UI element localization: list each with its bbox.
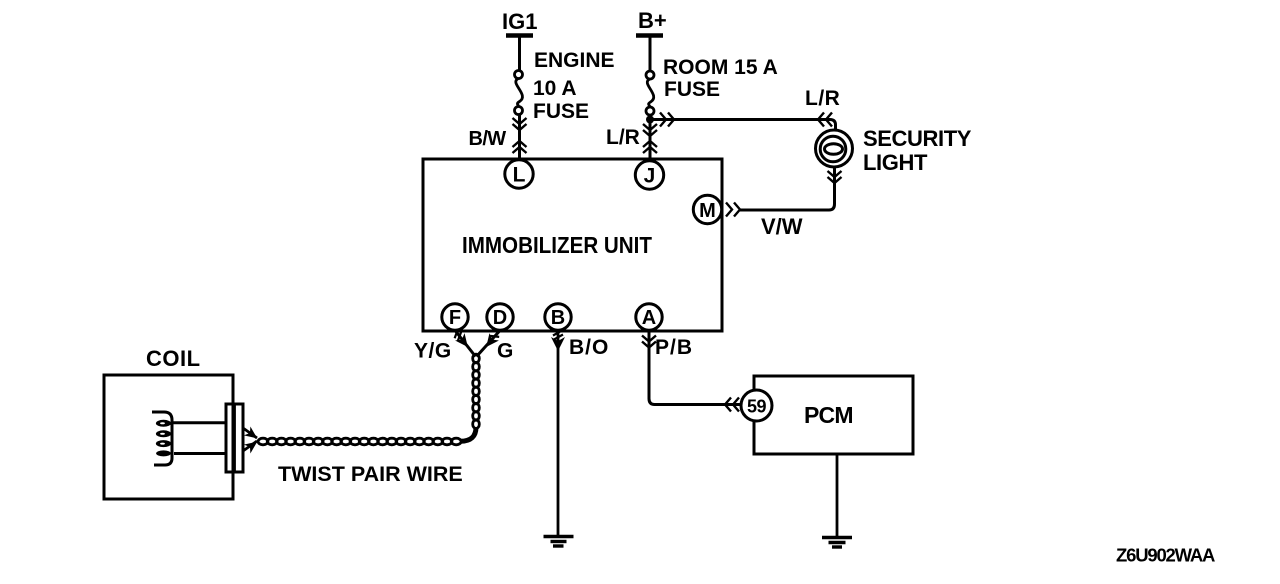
fuse ROOM 15A (symbol) [646,71,654,115]
wire junction to pin J [649,115,652,159]
svg-text:B/W: B/W [469,128,507,150]
svg-text:Z6U902WAA: Z6U902WAA [1116,545,1215,566]
pin B [545,304,571,330]
svg-text:J: J [644,165,656,188]
wire B+ to fuse [649,36,652,71]
chevrons left (at pin 59) [725,398,739,412]
connector pin 59 [741,390,772,421]
svg-text:SECURITY: SECURITY [863,126,972,151]
connector chevrons L/R (down pair) [643,124,657,136]
coil box [104,375,233,499]
connector chevrons L/R (up pair) [643,141,657,153]
svg-text:B/O: B/O [569,336,609,359]
wire G from pin D [477,331,500,357]
immobilizer unit box [423,159,722,331]
pin A [636,304,662,330]
coil inductor symbol [152,412,172,465]
arrowhead on B/O wire [551,331,565,352]
svg-text:COIL: COIL [146,346,201,371]
svg-text:V/W: V/W [761,214,803,239]
chevrons left (near light) [818,113,832,127]
wire connector to twist (lower) [243,441,257,451]
svg-text:FUSE: FUSE [533,100,589,123]
wire B/O from pin B to ground [557,331,560,535]
svg-text:B+: B+ [638,8,667,33]
power rail bar IG1 [506,33,533,38]
coil wire top [172,421,226,424]
svg-text:10 A: 10 A [533,77,577,100]
connector chevrons P/B (down pair) [642,336,656,348]
coil connector [226,404,243,472]
svg-text:F: F [449,307,461,329]
fuse ENGINE 10A (symbol) [515,71,523,115]
twisted pair wire (horizontal run) [258,438,461,445]
svg-text:B: B [551,307,565,329]
arrowhead on G wire [481,331,500,351]
ground (PCM) [822,538,852,548]
pin L [505,160,533,188]
arrowhead on Y/G wire [451,328,473,351]
svg-text:A: A [642,307,656,329]
pin D [487,304,513,330]
svg-text:D: D [493,307,507,329]
coil wire bottom [174,452,226,455]
wire PCM to ground [836,454,839,536]
svg-text:Y/G: Y/G [414,340,452,363]
svg-text:ROOM 15 A: ROOM 15 A [663,56,778,79]
svg-text:M: M [699,200,716,222]
wire junction to security light [650,120,836,131]
connector chevrons B/W (down pair) [513,118,527,130]
twisted pair wire (vertical run) [461,354,480,441]
wire fuse to pin L [518,115,521,159]
wire V/W from lamp down to M [740,167,835,210]
svg-text:ENGINE: ENGINE [534,49,615,72]
svg-text:LIGHT: LIGHT [863,150,928,175]
svg-text:IMMOBILIZER UNIT: IMMOBILIZER UNIT [462,232,652,258]
svg-text:59: 59 [747,397,767,417]
svg-text:L: L [513,164,526,187]
chevrons right (at pin M) [726,203,740,217]
svg-text:L/R: L/R [805,87,840,110]
ground (B/O) [544,537,574,547]
wire IG1 to fuse [518,36,521,71]
svg-text:IG1: IG1 [502,9,537,34]
chevrons down (below lamp) [828,171,842,183]
svg-text:PCM: PCM [804,402,853,428]
power rail bar B+ [636,33,663,38]
wire connector to twist (upper) [243,428,257,438]
junction dot [646,116,654,124]
wire P/B from pin A [649,331,740,405]
svg-text:G: G [497,340,513,363]
pin M [693,195,721,223]
PCM box [754,376,913,454]
pin J [635,161,663,189]
svg-text:FUSE: FUSE [664,78,720,101]
chevrons right (on wire to light) [660,113,674,127]
svg-text:P/B: P/B [655,336,693,359]
pin F [442,304,468,330]
wire Y/G from pin F [456,331,476,357]
connector chevrons B/W (up pair) [513,141,527,153]
svg-text:L/R: L/R [606,126,640,149]
security light lamp [816,130,853,167]
svg-text:TWIST PAIR WIRE: TWIST PAIR WIRE [278,462,463,486]
